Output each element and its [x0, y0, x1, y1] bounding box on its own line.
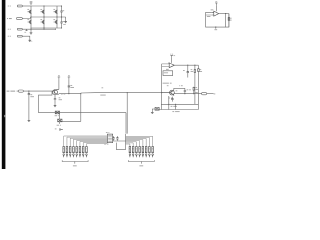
U2 body box [163, 71, 173, 76]
base bias loop [39, 91, 81, 113]
connector cluster U5 [106, 131, 108, 134]
wire J2 pin 3 [126, 142, 137, 147]
svg-text:8: 8 [76, 149, 77, 151]
header J2 pin 7 [149, 147, 151, 153]
wire JP3 to ground [152, 109, 155, 111]
header J1 pin 5 [76, 147, 78, 153]
output wire [219, 13, 229, 15]
bracket under J1 [62, 160, 88, 163]
wire J2 pin 6 [126, 139, 147, 147]
sense tap [26, 29, 28, 30]
wire J1 pin 7 [83, 143, 107, 147]
top supply rail [31, 5, 62, 7]
svg-text:8: 8 [79, 149, 80, 151]
header J1 pin 1 [63, 147, 65, 153]
header J2 pin 8 [152, 147, 154, 153]
wire input D [24, 36, 30, 38]
svg-text:8: 8 [86, 149, 87, 151]
svg-text:8: 8 [70, 149, 71, 151]
U2 designator [166, 68, 169, 71]
loop bottom stub [215, 27, 217, 29]
left black sidebar [2, 0, 6, 169]
C1 ground [28, 120, 31, 121]
net label VCC [102, 86, 104, 89]
column rail 1 [30, 6, 32, 28]
header J1 pin 8 [86, 147, 88, 153]
capacitor C7 [171, 97, 173, 102]
U3 part label [207, 15, 211, 18]
capacitor C4 [187, 65, 189, 77]
header J1 pin 3 [69, 147, 71, 153]
transistor Q6 low-side [54, 20, 57, 24]
svg-text:1: 1 [66, 151, 67, 153]
power flag V+ mid [169, 53, 172, 56]
header J1 pin 2 [66, 147, 68, 153]
supply wire label [100, 94, 105, 97]
power flag +BAT [30, 0, 33, 3]
resistor R11 [228, 14, 230, 28]
column rail 3 [56, 6, 58, 28]
transistor Q3 high-side [54, 10, 57, 14]
wire J2 pin 4 [126, 141, 140, 147]
net label IN_D [7, 36, 10, 37]
wire collector top [174, 87, 185, 89]
IC U4 label [163, 82, 169, 85]
header J1 pin 6 [79, 147, 81, 153]
wire input A [24, 5, 31, 7]
net label VIN [7, 91, 10, 92]
wire V+ down [171, 58, 173, 63]
header J2 pin 3 [136, 147, 138, 153]
fuse F1 [18, 90, 23, 92]
header J2 pin 1 [129, 147, 131, 153]
capacitor C1 [28, 91, 30, 120]
wire J2 pin 2 [126, 143, 134, 147]
wire J2 pin 8 [126, 136, 153, 146]
header J2 pin 2 [132, 147, 134, 153]
wire phase to sense ground [65, 17, 67, 20]
transistor Q4 low-side [28, 20, 31, 24]
capacitor C2 [68, 79, 70, 94]
capacitor C6 [184, 88, 186, 93]
wire phase B [24, 17, 31, 19]
wire J1 pin 2 [67, 137, 107, 146]
bottom rail 1 [161, 103, 198, 105]
diode D1 [61, 6, 63, 17]
C3 ground [54, 104, 57, 107]
phase mid rail [31, 16, 66, 18]
header J1 pin 7 [82, 147, 84, 153]
capacitor C3 [54, 95, 56, 104]
svg-text:8: 8 [83, 149, 84, 151]
wire to Q7 base [29, 90, 52, 92]
resistor R7 [197, 65, 199, 104]
wire J1 pin 1 [64, 136, 108, 147]
jumper JP2 [58, 119, 62, 122]
emitter wire [59, 93, 81, 95]
diode D2 [61, 17, 63, 28]
net label GND bottom-left [55, 127, 57, 130]
header J2 pin 4 [139, 147, 141, 153]
op-amp U2 [169, 63, 174, 68]
out net label [195, 91, 198, 94]
net label IN_C [7, 29, 10, 30]
feedback loop wire [206, 12, 229, 27]
power flag V+ top-right [215, 0, 217, 3]
wire V+ to op-amp [215, 5, 217, 11]
transistor Q7 [53, 90, 58, 95]
header J2 pin 5 [142, 147, 144, 153]
power flag VR2 [68, 74, 70, 77]
svg-text:1: 1 [83, 151, 84, 153]
transistor Q2 high-side [41, 10, 44, 14]
resistor R6 [194, 65, 196, 104]
ground input D [28, 39, 31, 42]
wire J1 pin 3 [70, 138, 107, 146]
wire J1 pin 6 [80, 142, 107, 147]
ground phase sense [64, 20, 67, 23]
cluster loop wire [113, 134, 126, 149]
Q7 designator [61, 93, 63, 96]
svg-text:8: 8 [63, 149, 64, 151]
header J2 pin 6 [145, 147, 147, 153]
wire J2 pin 7 [126, 137, 150, 146]
bottom rail 2 [158, 104, 198, 109]
column rail 2 [43, 6, 45, 28]
bottom rail [31, 27, 62, 29]
svg-text:8: 8 [66, 149, 67, 151]
wire J1 pin 4 [73, 139, 107, 146]
wire low-side drive [24, 28, 56, 30]
polarized capacitor C9 [116, 136, 118, 140]
svg-text:1: 1 [86, 151, 87, 153]
transistor Q1 high-side [28, 10, 31, 14]
transistor Q8 [170, 90, 175, 95]
svg-text:1: 1 [79, 151, 80, 153]
feedback inner wire [225, 14, 227, 28]
svg-text:8: 8 [73, 149, 74, 151]
net label IN_B [6, 18, 9, 19]
bracket under J2 [128, 160, 154, 163]
U2 output wire [174, 64, 198, 66]
ground mid-right [151, 111, 154, 114]
polarized capacitor C8 [112, 136, 114, 140]
svg-text:1: 1 [70, 151, 71, 153]
wire label to fan [61, 129, 63, 131]
header J1 pin 4 [73, 147, 75, 153]
wire collector up [58, 79, 60, 89]
wire down to connector [126, 93, 128, 134]
wire J2 pin 5 [126, 140, 143, 147]
rail stubs [169, 96, 176, 110]
ferrite FB1 [202, 93, 207, 95]
ground below bridge [30, 28, 32, 31]
op-amp U3 [214, 11, 219, 16]
power flag VR1 [58, 74, 60, 77]
transistor Q5 low-side [41, 20, 44, 24]
svg-text:1: 1 [63, 151, 64, 153]
jumper JP3 [155, 108, 159, 111]
op-amp U3 designator [211, 8, 214, 11]
wire J1 pin 5 [77, 140, 108, 146]
net label IN_A [7, 6, 10, 7]
output rail [174, 93, 202, 95]
wire J2 pin 1 [126, 144, 130, 147]
left rail [161, 64, 163, 110]
svg-text:1: 1 [73, 151, 74, 153]
wire J1 pin 8 [86, 144, 107, 147]
lower stub rail [60, 113, 81, 124]
resistor R8 [193, 87, 195, 94]
Q8 designator [176, 89, 178, 92]
svg-text:1: 1 [76, 151, 77, 153]
out pin label [214, 92, 216, 95]
bottom rail into cluster [81, 113, 126, 134]
jumper JP1 [55, 111, 59, 114]
long supply wire [81, 92, 162, 94]
